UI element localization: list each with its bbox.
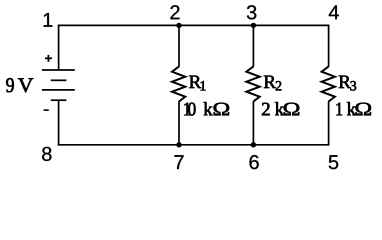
wire R2 bottom lead to node 6 junction bbox=[252, 101, 254, 146]
junction dot node 6 bbox=[251, 142, 256, 147]
label 10 kOhm value bbox=[184, 102, 229, 115]
wire R2 top lead from node 3 junction bbox=[252, 25, 254, 67]
junction dot node 3 bbox=[251, 23, 256, 28]
label R2 bbox=[264, 76, 281, 91]
node 7 label bbox=[174, 155, 183, 169]
resistor R2 zigzag bbox=[246, 66, 259, 101]
wire left vertical from top rail down to battery positive plate bbox=[58, 25, 60, 70]
label 9 V bbox=[6, 78, 33, 92]
node 2 label bbox=[170, 5, 179, 19]
resistor R1 zigzag bbox=[172, 66, 185, 101]
node 5 label bbox=[329, 155, 338, 169]
battery negative terminal - bbox=[44, 109, 49, 111]
label 2 kOhm value bbox=[262, 102, 299, 115]
node 4 label bbox=[329, 5, 339, 19]
junction dot node 2 bbox=[176, 23, 181, 28]
node 1 label bbox=[44, 13, 53, 27]
label R3 bbox=[339, 76, 356, 91]
wire R1 top lead from node 2 junction bbox=[178, 25, 180, 67]
label R1 bbox=[189, 76, 205, 91]
junction dot node 7 bbox=[176, 142, 181, 147]
wire bottom rail from node 8 corner to node 5 corner bbox=[58, 144, 330, 146]
wire R3 top lead from node 4 corner bbox=[328, 25, 330, 67]
wire R1 bottom lead to node 7 junction bbox=[178, 101, 180, 146]
wire R3 bottom lead to node 5 corner bbox=[328, 101, 330, 146]
battery positive terminal + bbox=[45, 55, 52, 62]
resistor R3 zigzag bbox=[322, 66, 335, 101]
node 8 label bbox=[42, 147, 51, 161]
node 3 label bbox=[247, 5, 256, 19]
wire top rail from node 1 corner to node 4 corner bbox=[58, 24, 330, 26]
battery B1 plates (long-short-long-short) bbox=[42, 70, 75, 100]
label 1 kOhm value bbox=[336, 102, 371, 115]
wire left vertical from battery negative plate down to bottom rail bbox=[58, 100, 60, 145]
node 6 label bbox=[249, 155, 258, 169]
